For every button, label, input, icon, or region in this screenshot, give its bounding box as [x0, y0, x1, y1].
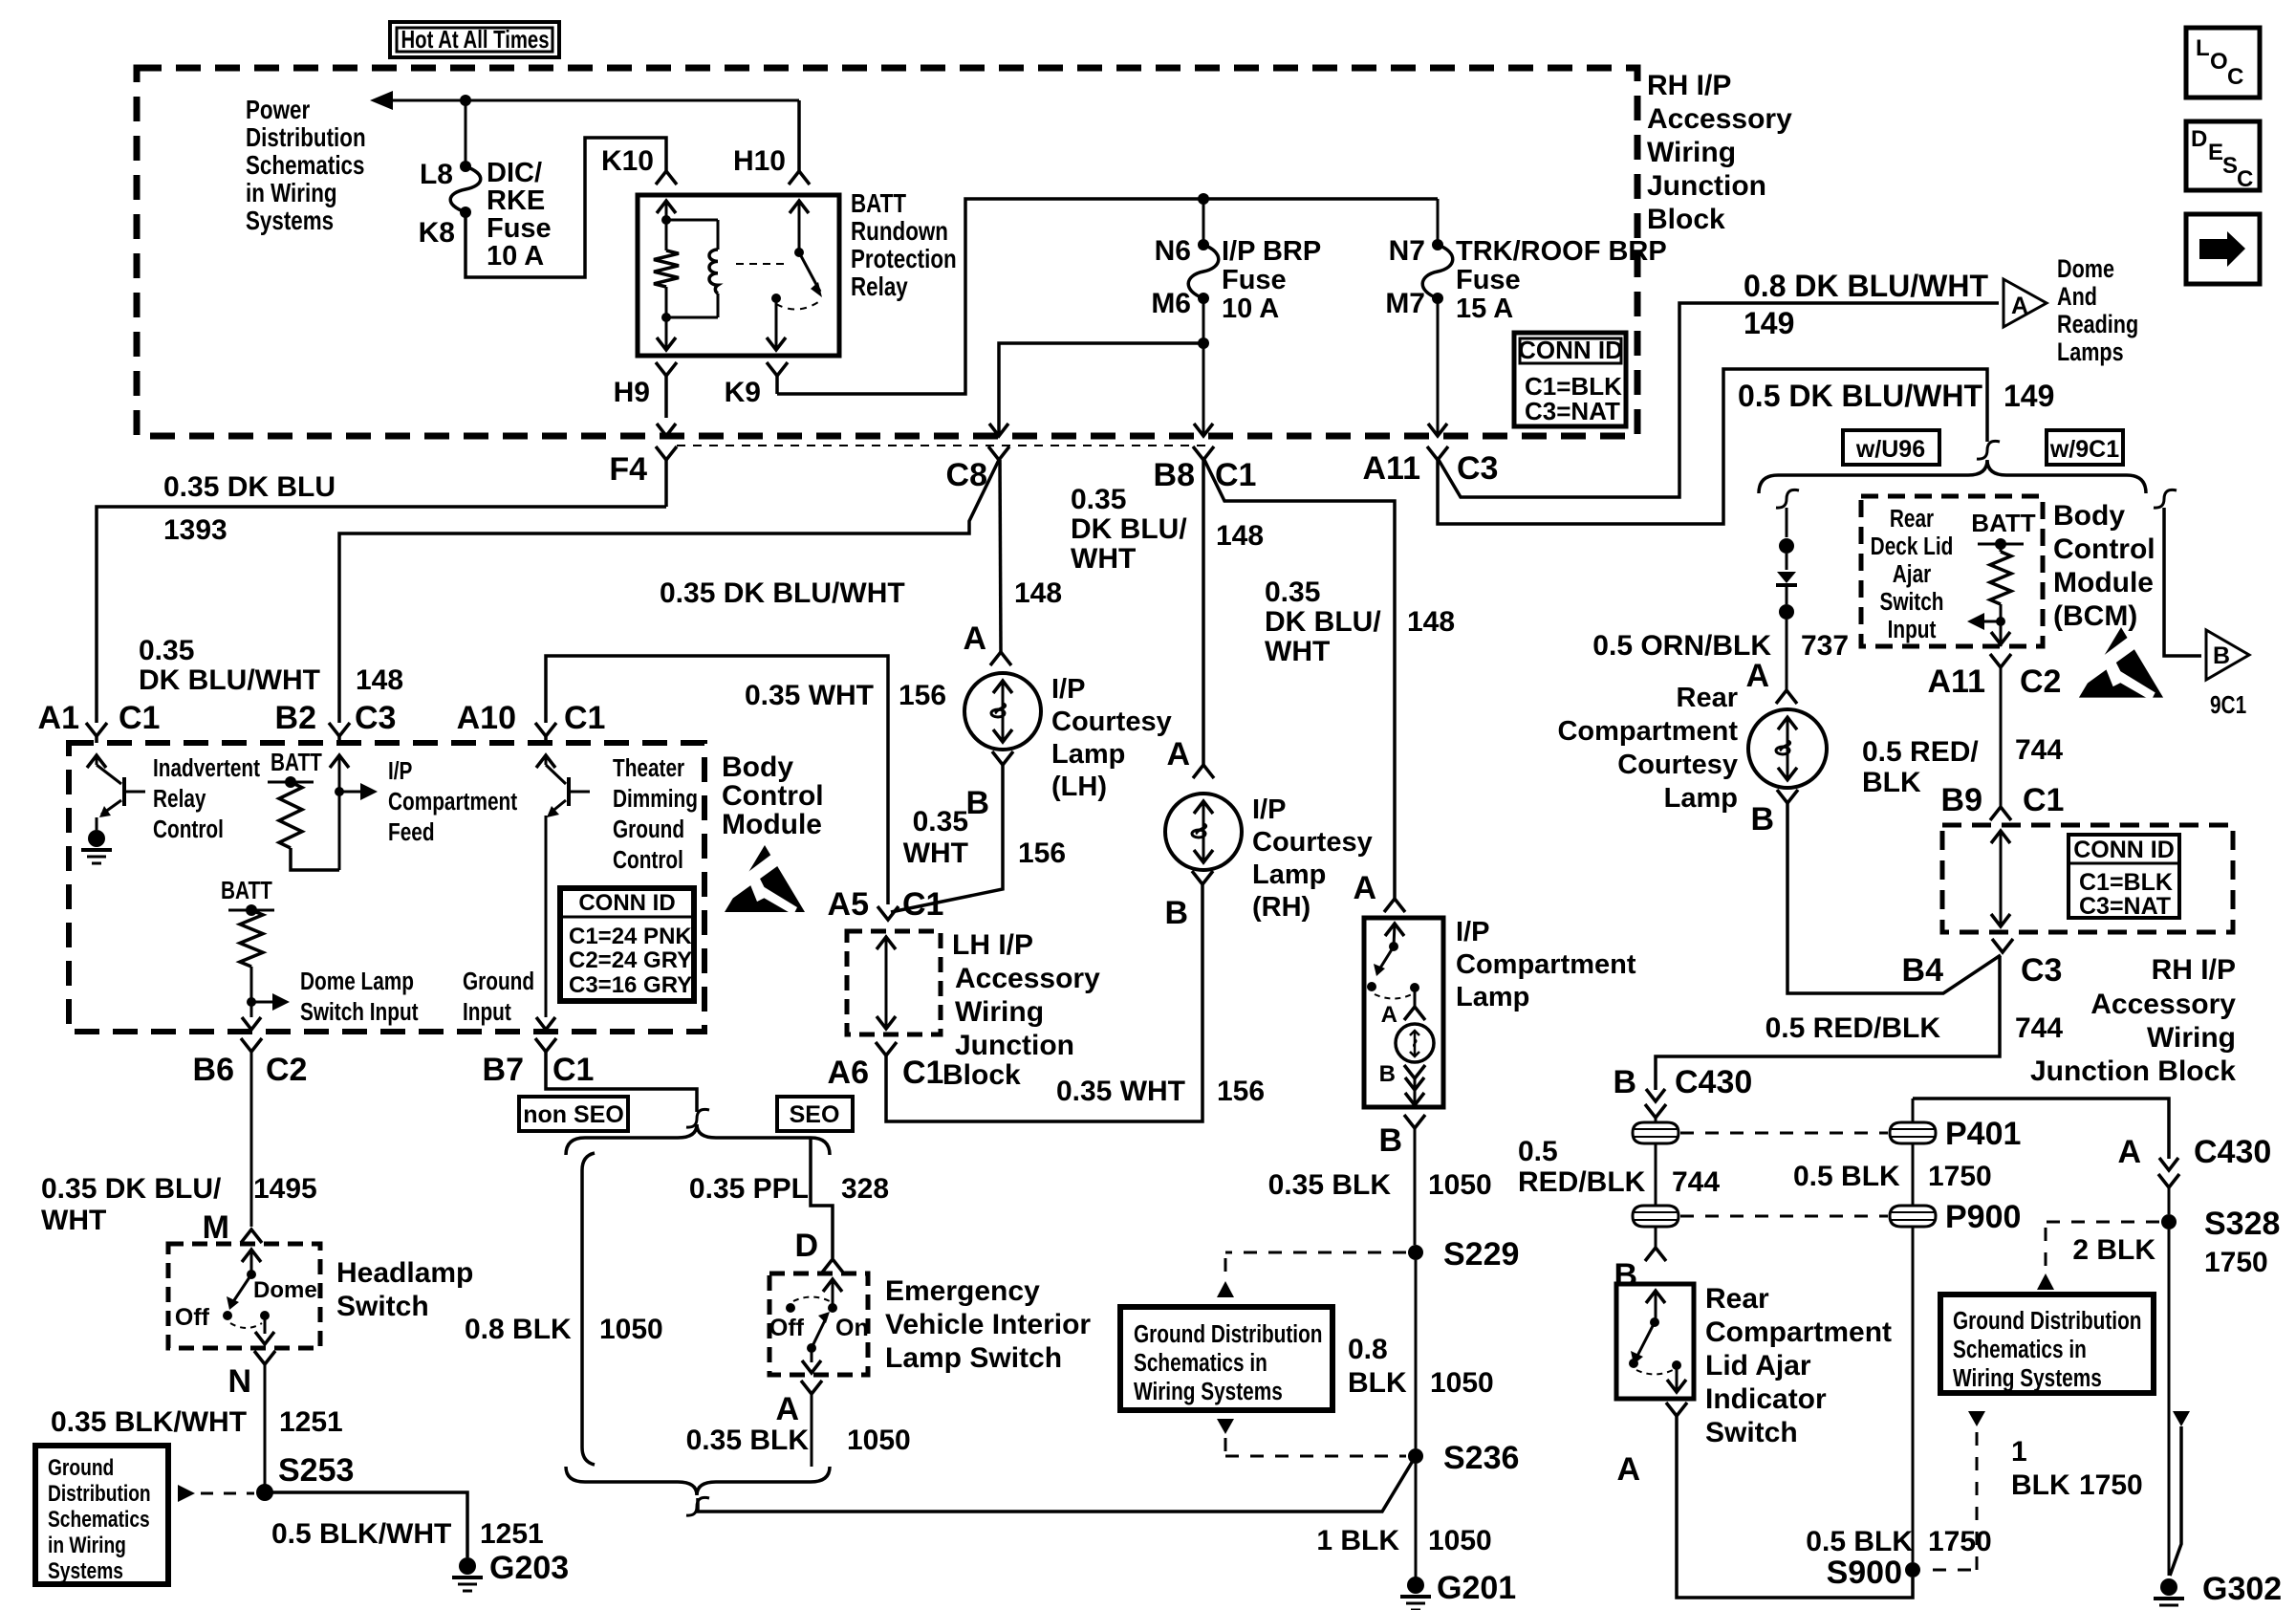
connector pin F4 — [656, 446, 677, 460]
svg-text:Distribution: Distribution — [246, 123, 366, 153]
svg-text:B: B — [1613, 1064, 1636, 1100]
svg-text:0.35 BLK: 0.35 BLK — [1268, 1169, 1392, 1201]
rear lid switch blade — [1636, 1322, 1655, 1358]
arrow to ground distribution box mid — [1217, 1281, 1234, 1297]
svg-text:A: A — [1381, 1002, 1397, 1028]
wire 1750 0.5 BLK between grommets — [1655, 1143, 1657, 1206]
svg-text:S236: S236 — [1443, 1440, 1519, 1476]
emergency switch blade — [812, 1318, 826, 1348]
svg-text:Accessory: Accessory — [955, 963, 1100, 994]
svg-text:Control: Control — [153, 816, 224, 843]
svg-text:C3: C3 — [2021, 952, 2062, 989]
svg-text:0.8: 0.8 — [1348, 1334, 1388, 1365]
svg-text:0.5 BLK: 0.5 BLK — [1806, 1526, 1913, 1557]
wire dimmer return to S236 — [698, 1456, 1416, 1512]
dashed reference arrow to S253 — [178, 1485, 195, 1502]
svg-text:BATT: BATT — [1971, 509, 2036, 537]
wire 1050 0.35 BLK comp lamp B to S229 — [1414, 1128, 1417, 1245]
svg-text:0.5 BLK/WHT: 0.5 BLK/WHT — [271, 1518, 451, 1550]
svg-text:(BCM): (BCM) — [2053, 600, 2137, 632]
icon box LOC — [2186, 28, 2260, 98]
svg-text:Wiring: Wiring — [1647, 137, 1736, 168]
svg-text:I/P: I/P — [1051, 674, 1085, 705]
wire H9 to F4 — [657, 424, 676, 436]
svg-text:Off: Off — [175, 1304, 210, 1331]
svg-text:And: And — [2057, 283, 2097, 312]
svg-text:SEO: SEO — [790, 1101, 840, 1128]
svg-text:Dome: Dome — [2057, 255, 2114, 284]
svg-text:D: D — [794, 1228, 818, 1264]
svg-text:Ground: Ground — [613, 816, 684, 843]
svg-text:Lid Ajar: Lid Ajar — [1705, 1350, 1811, 1382]
svg-text:Ground: Ground — [48, 1454, 114, 1481]
svg-text:156: 156 — [899, 680, 946, 711]
arrow from mid box to S236 dashed — [1217, 1419, 1234, 1434]
svg-text:Junction: Junction — [1647, 170, 1766, 202]
svg-text:Courtesy: Courtesy — [1617, 750, 1738, 780]
svg-text:Compartment: Compartment — [388, 788, 517, 816]
svg-text:A11: A11 — [1363, 450, 1421, 487]
svg-text:I/P: I/P — [1456, 917, 1489, 947]
svg-text:Block: Block — [942, 1059, 1021, 1091]
svg-text:2 BLK: 2 BLK — [2072, 1234, 2155, 1266]
svg-text:Ground: Ground — [463, 968, 534, 995]
svg-text:Lamps: Lamps — [2057, 338, 2124, 367]
svg-text:G302: G302 — [2202, 1571, 2282, 1607]
svg-text:Switch: Switch — [336, 1291, 429, 1322]
LH I/P accessory wiring junction block dashed box — [847, 931, 941, 1034]
rear lid switch pin arrow — [1646, 1291, 1665, 1303]
svg-text:Courtesy: Courtesy — [1252, 827, 1373, 858]
diode BCM internal — [1786, 554, 1788, 570]
resistor I/P compartment feed pull-up — [279, 782, 302, 848]
svg-text:LH I/P: LH I/P — [952, 929, 1033, 961]
svg-text:C1: C1 — [564, 700, 605, 736]
connector pin B6/C2 — [241, 1038, 262, 1052]
svg-text:S900: S900 — [1827, 1555, 1902, 1591]
svg-text:Relay: Relay — [851, 272, 908, 302]
emergency switch Off contact — [786, 1303, 795, 1313]
svg-text:F4: F4 — [609, 451, 647, 488]
rear lid switch common contact — [1650, 1317, 1659, 1327]
svg-text:1750: 1750 — [1928, 1161, 1992, 1192]
label w/U96 — [1843, 430, 1939, 465]
svg-text:328: 328 — [841, 1173, 889, 1205]
svg-text:L: L — [2196, 35, 2210, 61]
icon box forward arrow — [2186, 214, 2260, 284]
label w/9C1 — [2047, 430, 2123, 465]
wire dome lamp to B6 — [250, 1002, 253, 1017]
svg-text:Ground Distribution: Ground Distribution — [1953, 1307, 2141, 1335]
relay switch NO contact — [771, 294, 781, 303]
svg-text:WHT: WHT — [1071, 543, 1136, 575]
svg-text:0.5 RED/: 0.5 RED/ — [1862, 736, 1979, 768]
svg-text:B: B — [2213, 642, 2230, 669]
svg-text:(LH): (LH) — [1051, 772, 1107, 802]
svg-text:B8: B8 — [1154, 457, 1195, 493]
connector pin B rear compartment courtesy lamp — [1777, 790, 1798, 803]
relay K: BATT Rundown Protection Relay box — [638, 195, 839, 356]
wire 1251 0.5 BLK/WHT S253 to G203 — [265, 1492, 467, 1557]
svg-text:P401: P401 — [1945, 1116, 2021, 1152]
svg-text:C2: C2 — [2020, 664, 2061, 700]
connector pin A emergency switch — [801, 1381, 822, 1394]
connector pin B compartment lamp — [1404, 1115, 1425, 1128]
svg-text:148: 148 — [356, 664, 403, 696]
fuse DIC/RKE Fuse 10 A (L8-K8) — [460, 161, 471, 172]
compartment lamp switch blade — [1379, 946, 1394, 969]
svg-text:0.35 DK BLU/WHT: 0.35 DK BLU/WHT — [660, 577, 905, 609]
svg-text:L8: L8 — [420, 159, 453, 190]
svg-text:0.35 DK BLU/: 0.35 DK BLU/ — [41, 1173, 222, 1205]
svg-text:BATT: BATT — [271, 749, 322, 776]
svg-text:Fuse: Fuse — [487, 213, 552, 244]
svg-text:H9: H9 — [614, 377, 650, 408]
svg-text:A10: A10 — [457, 700, 516, 736]
rear deck lid ajar switch input dashed box — [1861, 496, 2043, 646]
svg-text:Deck Lid: Deck Lid — [1871, 533, 1954, 560]
wire 148 B8 to RH courtesy lamp A — [1202, 460, 1205, 765]
compartment lamp internal pin — [1414, 988, 1417, 1007]
svg-text:Accessory: Accessory — [2090, 989, 2236, 1020]
svg-text:Relay: Relay — [153, 785, 206, 813]
switch+lamp I/P compartment lamp box — [1364, 918, 1443, 1107]
emergency switch dashed arc — [793, 1297, 830, 1302]
note Ground Distribution Schematics box right — [1940, 1295, 2154, 1393]
headlamp switch output arrow — [264, 1316, 267, 1334]
dashed link to P401 — [1680, 1132, 1888, 1135]
connector pin B RH courtesy lamp — [1192, 871, 1213, 884]
svg-text:0.5: 0.5 — [1518, 1136, 1558, 1167]
node junction dot hot feed — [460, 95, 471, 106]
emergency switch lower contact — [807, 1343, 816, 1353]
svg-text:0.5 DK BLU/WHT: 0.5 DK BLU/WHT — [1738, 379, 1982, 413]
svg-text:A11: A11 — [1928, 664, 1986, 700]
svg-text:Dimming: Dimming — [613, 785, 698, 813]
svg-text:Lamp: Lamp — [1051, 739, 1125, 770]
svg-text:S253: S253 — [278, 1452, 354, 1489]
connector pin A6/C1 — [876, 1042, 897, 1055]
svg-text:Indicator: Indicator — [1705, 1383, 1827, 1415]
svg-text:G201: G201 — [1437, 1570, 1516, 1606]
svg-text:Module: Module — [722, 809, 822, 840]
svg-text:P900: P900 — [1945, 1199, 2021, 1235]
svg-text:K8: K8 — [419, 217, 455, 249]
svg-text:0.35: 0.35 — [1265, 577, 1320, 608]
svg-text:1050: 1050 — [1428, 1169, 1492, 1201]
ground G302 — [2160, 1578, 2177, 1596]
note Ground Distribution Schematics box left — [35, 1446, 168, 1584]
svg-text:I/P: I/P — [1252, 794, 1286, 825]
headlamp switch common contact — [247, 1270, 256, 1279]
dashed reference S229 to ground distribution mid — [1225, 1251, 1406, 1254]
svg-text:K9: K9 — [725, 377, 761, 408]
svg-text:A: A — [2011, 293, 2028, 319]
svg-text:Body: Body — [2053, 500, 2125, 532]
connector pin B LH lamp — [992, 751, 1013, 765]
switch rear compartment lid ajar indicator switch box — [1616, 1284, 1694, 1399]
svg-text:Courtesy: Courtesy — [1051, 707, 1172, 737]
node bus junction at N6 — [1198, 193, 1209, 205]
svg-text:C1=BLK: C1=BLK — [2079, 869, 2173, 896]
svg-text:Lamp Switch: Lamp Switch — [885, 1342, 1062, 1374]
compartment lamp feed arrow — [1385, 924, 1404, 936]
relay switch common contact — [794, 248, 804, 257]
svg-text:10 A: 10 A — [487, 241, 544, 272]
connector pin A11/C2 BCM bottom — [1990, 654, 2011, 667]
conn id table top junction block — [1514, 333, 1626, 426]
connector pair A / C430 right — [2159, 1158, 2178, 1170]
svg-text:Schematics in: Schematics in — [1953, 1336, 2087, 1363]
svg-text:Rear: Rear — [1890, 505, 1934, 533]
svg-text:C1=24 PNK: C1=24 PNK — [569, 924, 692, 949]
svg-text:Input: Input — [463, 998, 511, 1026]
connector pair B / C430 — [1646, 1089, 1665, 1101]
wire 744 0.5 RED/BLK lamp B to B4/C3 — [1787, 803, 2001, 993]
svg-text:0.8 BLK: 0.8 BLK — [465, 1314, 572, 1345]
svg-text:1: 1 — [2011, 1436, 2027, 1468]
svg-text:B9: B9 — [1941, 782, 1982, 818]
node splice on ORN/BLK feed — [1779, 538, 1794, 554]
svg-text:WHT: WHT — [41, 1205, 106, 1236]
svg-text:Rundown: Rundown — [851, 217, 948, 247]
top junction block dashed box (RH I/P Accessory Wiring Junction Block) — [137, 68, 1637, 436]
svg-text:C1: C1 — [2023, 782, 2064, 818]
svg-text:Wiring Systems: Wiring Systems — [1134, 1378, 1283, 1405]
wire curl out of harness — [686, 1497, 709, 1515]
svg-text:Wiring Systems: Wiring Systems — [1953, 1364, 2102, 1392]
svg-text:Switch Input: Switch Input — [300, 998, 419, 1026]
conn id table left BCM — [560, 888, 694, 1001]
inline connector P401 — [1890, 1122, 1936, 1143]
svg-text:Lamp: Lamp — [1456, 982, 1529, 1012]
relay switch pin arrow (H10 side) — [790, 201, 809, 213]
relay coil bottom pin arrow (H9 side) — [665, 317, 668, 350]
switch headlamp switch dashed box — [168, 1244, 320, 1348]
svg-text:A: A — [1745, 658, 1769, 694]
wire 744 0.5 RED/BLK A11 to B9 — [2000, 667, 2003, 807]
svg-text:S: S — [2222, 153, 2238, 179]
wire K8 to K10 relay coil feed — [466, 138, 666, 277]
svg-text:Rear: Rear — [1705, 1283, 1769, 1315]
connector pin A5/C1 — [877, 906, 899, 920]
node relay coil top junction — [661, 215, 671, 225]
svg-text:DK BLU/: DK BLU/ — [1265, 606, 1381, 638]
svg-text:E: E — [2208, 140, 2223, 165]
svg-text:RH I/P: RH I/P — [2152, 954, 2236, 986]
resistor relay internal — [665, 220, 668, 250]
label Hot At All Times — [390, 22, 559, 57]
left BCM dashed box (Body Control Module) — [69, 743, 704, 1032]
svg-text:Fuse: Fuse — [1456, 265, 1521, 295]
svg-text:0.35: 0.35 — [139, 635, 194, 666]
svg-text:B2: B2 — [275, 700, 316, 736]
svg-text:DIC/: DIC/ — [487, 158, 542, 188]
svg-text:Compartment: Compartment — [1557, 716, 1738, 747]
svg-text:C3: C3 — [355, 700, 396, 736]
wire 1050 1 BLK S236 to G201 — [1415, 1464, 1418, 1579]
svg-text:S229: S229 — [1443, 1236, 1519, 1273]
svg-text:Vehicle Interior: Vehicle Interior — [885, 1309, 1091, 1340]
svg-text:Lamp: Lamp — [1664, 783, 1738, 814]
rear lid switch output contact — [1672, 1360, 1681, 1370]
svg-text:CONN ID: CONN ID — [1518, 336, 1623, 364]
svg-text:1 BLK: 1 BLK — [1316, 1525, 1399, 1556]
svg-text:Dome Lamp: Dome Lamp — [300, 968, 414, 995]
svg-text:1251: 1251 — [480, 1518, 544, 1550]
RH I/P accessory wiring junction block dashed box (lower) — [1942, 825, 2233, 932]
svg-text:15 A: 15 A — [1456, 294, 1513, 324]
svg-text:1050: 1050 — [599, 1314, 663, 1345]
svg-text:C1: C1 — [119, 700, 160, 736]
I/P compartment feed pin arrow — [330, 755, 349, 768]
emergency switch On contact — [828, 1303, 837, 1313]
inline connector grommet left lower — [1633, 1206, 1679, 1227]
svg-text:A: A — [1166, 736, 1190, 772]
wire 1495 0.35 DK BLU/WHT B6 to headlamp switch M — [250, 1052, 253, 1227]
wire 328 0.35 PPL SEO to emergency switch D — [811, 1138, 833, 1258]
svg-text:Switch: Switch — [1879, 588, 1943, 616]
svg-text:C3=NAT: C3=NAT — [2079, 893, 2171, 920]
svg-text:Reading: Reading — [2057, 311, 2138, 339]
svg-text:Systems: Systems — [48, 1557, 123, 1584]
svg-text:w/U96: w/U96 — [1855, 436, 1925, 463]
svg-text:N: N — [227, 1363, 251, 1400]
node M6 splice to C8/B8 — [1202, 298, 1205, 343]
wire tap to DIC/RKE fuse — [465, 100, 467, 166]
svg-text:Input: Input — [1888, 616, 1937, 643]
arrow I/P compartment feed — [339, 791, 366, 794]
connector boundary thin dashed line — [677, 445, 1206, 446]
svg-text:0.35 BLK/WHT: 0.35 BLK/WHT — [51, 1406, 247, 1438]
svg-text:156: 156 — [1217, 1076, 1265, 1107]
svg-text:156: 156 — [1018, 838, 1066, 869]
node splice S328 — [2161, 1214, 2177, 1229]
transistor inadvertent relay control — [97, 765, 121, 784]
node relay coil bottom junction — [661, 313, 671, 322]
wire 1750 2 BLK S328 to G302 — [2168, 1229, 2171, 1576]
svg-text:D: D — [2191, 126, 2207, 152]
svg-text:w/9C1: w/9C1 — [2049, 436, 2119, 463]
svg-text:1251: 1251 — [279, 1406, 343, 1438]
ground BCM internal — [88, 830, 105, 847]
svg-text:CONN ID: CONN ID — [2073, 837, 2175, 863]
svg-text:in Wiring: in Wiring — [246, 179, 337, 208]
inline connector grommet left upper — [1633, 1122, 1679, 1143]
svg-text:0.35 PPL: 0.35 PPL — [689, 1173, 809, 1205]
svg-text:Block: Block — [1647, 204, 1725, 235]
resistor dome lamp switch input — [240, 910, 263, 967]
wire M7 to A11 — [1437, 298, 1440, 436]
svg-text:RH I/P: RH I/P — [1647, 70, 1731, 101]
BCM left connector curl — [1776, 490, 1799, 508]
arrow from box2 to G302 solid — [2173, 1411, 2190, 1426]
svg-text:Dome: Dome — [253, 1277, 317, 1303]
wire 148 C8 to LH courtesy lamp A — [1000, 460, 1001, 652]
svg-text:N6: N6 — [1155, 235, 1191, 267]
svg-text:0.35 DK BLU: 0.35 DK BLU — [163, 471, 336, 503]
svg-text:Hot At All Times: Hot At All Times — [401, 25, 550, 54]
svg-text:Control: Control — [2053, 533, 2155, 565]
svg-text:0.35 WHT: 0.35 WHT — [1056, 1076, 1185, 1107]
label SEO — [777, 1097, 853, 1131]
svg-text:B: B — [1164, 895, 1188, 931]
transistor theater dimming ground control — [535, 723, 556, 736]
node splice S900 — [1905, 1562, 1920, 1577]
emergency switch feed arrow — [823, 1279, 842, 1292]
connector pin B8 — [1193, 446, 1214, 460]
wire 148 B8/C1 to I/P compartment lamp A — [1204, 460, 1395, 899]
wire curl into harness split — [686, 1109, 709, 1127]
wire 149 0.8 DK BLU/WHT A11 to dome lamps — [1439, 303, 1999, 497]
svg-text:C1: C1 — [1215, 457, 1256, 493]
svg-text:Fuse: Fuse — [1222, 265, 1287, 295]
resistor rear deck lid ajar switch input — [1990, 552, 2011, 604]
svg-text:0.35: 0.35 — [1071, 484, 1126, 515]
svg-text:M7: M7 — [1385, 288, 1425, 319]
relay switch output arrow (K9 side) — [775, 298, 778, 350]
svg-text:B: B — [1379, 1061, 1396, 1087]
svg-text:Systems: Systems — [246, 207, 334, 236]
svg-text:BLK: BLK — [2011, 1469, 2070, 1501]
svg-text:1750: 1750 — [2079, 1469, 2143, 1501]
wire hot feed with arrow to power distribution — [386, 99, 799, 102]
arrow ground input to B7 — [536, 1017, 555, 1030]
svg-text:148: 148 — [1407, 606, 1455, 638]
connector pin H9 — [656, 362, 677, 376]
svg-text:O: O — [2210, 49, 2228, 75]
pass-through wire in RH junction block — [2000, 831, 2003, 926]
svg-text:B4: B4 — [1902, 952, 1944, 989]
lamp I/P courtesy lamp RH — [1165, 794, 1242, 870]
svg-text:non SEO: non SEO — [523, 1101, 624, 1128]
svg-text:H10: H10 — [733, 145, 786, 177]
node splice below diode — [1786, 587, 1788, 604]
svg-text:Compartment: Compartment — [1456, 949, 1636, 980]
svg-text:744: 744 — [1672, 1166, 1720, 1198]
esd symbol right BCM — [2079, 627, 2163, 698]
svg-text:Ground Distribution: Ground Distribution — [1134, 1320, 1322, 1348]
node junction with left arrow — [1996, 617, 2005, 626]
wire 1750 P401/P900 column — [1912, 1099, 1915, 1122]
svg-text:C: C — [2237, 166, 2253, 192]
svg-text:BATT: BATT — [851, 189, 906, 219]
relay switch dashed travel arc — [776, 302, 818, 310]
dashed link to P900 — [1680, 1215, 1888, 1218]
wire 1050 0.35 BLK emergency A to brace — [811, 1394, 813, 1467]
connector pin K9 — [767, 362, 788, 376]
svg-text:N7: N7 — [1389, 235, 1425, 267]
svg-text:Emergency: Emergency — [885, 1275, 1040, 1307]
wire M6 to B8 — [1202, 343, 1205, 436]
lamp I/P courtesy lamp LH — [964, 673, 1041, 750]
wire B7 to harness brace — [546, 1052, 697, 1112]
svg-text:A: A — [1616, 1451, 1640, 1488]
svg-text:Feed: Feed — [388, 818, 435, 846]
wire 156 0.35 WHT BCM A10 theater dimming to A5 — [546, 656, 888, 904]
connector pin B4/C3 — [1992, 939, 2013, 952]
svg-text:0.35: 0.35 — [913, 806, 968, 838]
svg-text:C2: C2 — [266, 1052, 307, 1088]
svg-text:C2=24 GRY: C2=24 GRY — [569, 947, 692, 973]
svg-text:Module: Module — [2053, 567, 2154, 598]
svg-text:Rear: Rear — [1677, 683, 1739, 713]
headlamp switch Off contact — [223, 1311, 232, 1320]
fuse I/P BRP Fuse 10 A (N6-M6) — [1198, 239, 1209, 250]
svg-text:C3=16 GRY: C3=16 GRY — [569, 972, 692, 998]
harness bottom brace — [566, 1467, 830, 1495]
dashed reference S328 to ground distribution — [2046, 1221, 2159, 1224]
